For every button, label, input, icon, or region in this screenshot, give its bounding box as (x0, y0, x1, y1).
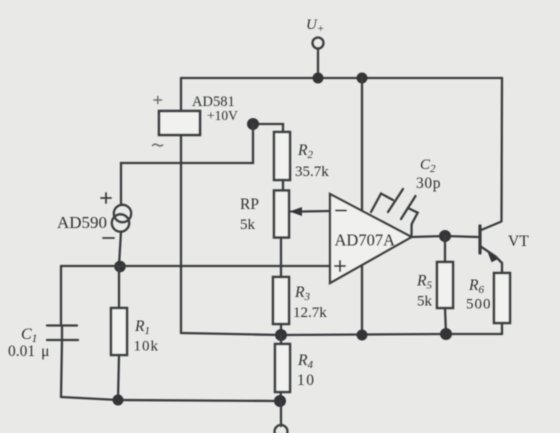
junction: R4 on bottom bus (274, 395, 286, 407)
junction: node A (AD590 / R1 / +input line) (114, 261, 126, 273)
junction: R3/R4 on lower bus (275, 329, 287, 341)
wire: R5 bottom lead (445, 308, 446, 334)
svg-text:10: 10 (297, 372, 316, 389)
svg-text:12.7k: 12.7k (293, 305, 327, 321)
resistor R5 (437, 262, 453, 308)
polarity mark + (AD590) (101, 193, 111, 203)
svg-text:5k: 5k (417, 294, 433, 310)
wire: lower bus AD581 to R6 (181, 333, 502, 335)
ground terminal (cut off at image edge) (275, 425, 288, 433)
svg-text:500: 500 (466, 297, 492, 313)
wire: RP bottom to R3 top (280, 238, 282, 277)
svg-text:VT: VT (508, 233, 529, 250)
wire: op-amp output to VT base (412, 236, 479, 237)
capacitor C1 (47, 326, 78, 341)
wire: C1 bottom lead to bottom bus (61, 340, 62, 397)
wire: C1 top lead (60, 266, 62, 324)
wire: R1 bottom lead (118, 355, 119, 400)
wire: R4 bottom lead (280, 392, 281, 401)
wire: R1 top lead (118, 266, 120, 308)
wire: AD581 output to R2 top (253, 124, 283, 132)
resistor R2 (274, 132, 290, 180)
wire: ground stub down (280, 401, 282, 426)
resistor R1 (111, 308, 127, 355)
wire: top supply rail (181, 77, 502, 79)
transistor VT (480, 222, 502, 274)
wire: R3 bottom lead (280, 324, 282, 335)
resistor R4 (275, 344, 290, 392)
wire: R6 bottom lead to lower bus (501, 323, 503, 334)
svg-text:AD707A: AD707A (335, 231, 396, 250)
potentiometer RP (274, 191, 304, 238)
capacitor C2 (tilted, across op-amp top edge) (371, 189, 418, 235)
wire: R2 to RP (282, 180, 284, 191)
wire: rail right corner down to VT collector (500, 78, 503, 221)
svg-text:AD590: AD590 (57, 213, 107, 232)
junction: output node (439, 230, 451, 242)
svg-text:+10V: +10V (207, 108, 238, 123)
svg-text:0.01μ: 0.01μ (8, 343, 49, 360)
svg-text:10k: 10k (134, 339, 160, 355)
terminal U+ (313, 38, 324, 79)
svg-text:35.7k: 35.7k (295, 164, 329, 180)
svg-text:30p: 30p (416, 175, 441, 192)
wire: AD581 top lead from rail (180, 78, 182, 111)
polarity mark - (AD581 left bottom) (153, 144, 163, 146)
junction: op-amp supply branch on rail (357, 73, 368, 84)
wire: bottom bus (61, 397, 280, 401)
wire: AD590 bottom to node A (119, 232, 121, 267)
polarity mark - (AD590) (103, 237, 114, 239)
wire: +10V node down and left to AD590 (121, 124, 253, 205)
junction: U+ on rail (313, 73, 324, 84)
svg-text:5k: 5k (240, 217, 256, 233)
wire: op-amp noninverting input line (61, 265, 330, 267)
svg-text:RP: RP (240, 196, 259, 213)
wire: R5 top lead (444, 236, 446, 262)
op-amp U1 AD707A (330, 194, 412, 283)
polarity mark + (AD581 left top) (154, 97, 162, 104)
junction: R5 on lower bus (440, 328, 452, 340)
resistor R6 (494, 273, 510, 323)
junction: supply branch on lower bus (357, 330, 368, 341)
current source AD590 (112, 205, 131, 232)
wire: op-amp inverting input line to RP wiper (303, 210, 330, 213)
junction: R1 on bottom bus (113, 395, 124, 406)
voltage reference AD581 (159, 111, 200, 135)
junction: +10V node (247, 118, 259, 130)
wire: R4 top lead (280, 335, 282, 344)
resistor R3 (273, 277, 289, 324)
wire: AD581 bottom lead down (180, 135, 182, 333)
wire: supply branch down through op-amp to lower bus (361, 78, 363, 335)
